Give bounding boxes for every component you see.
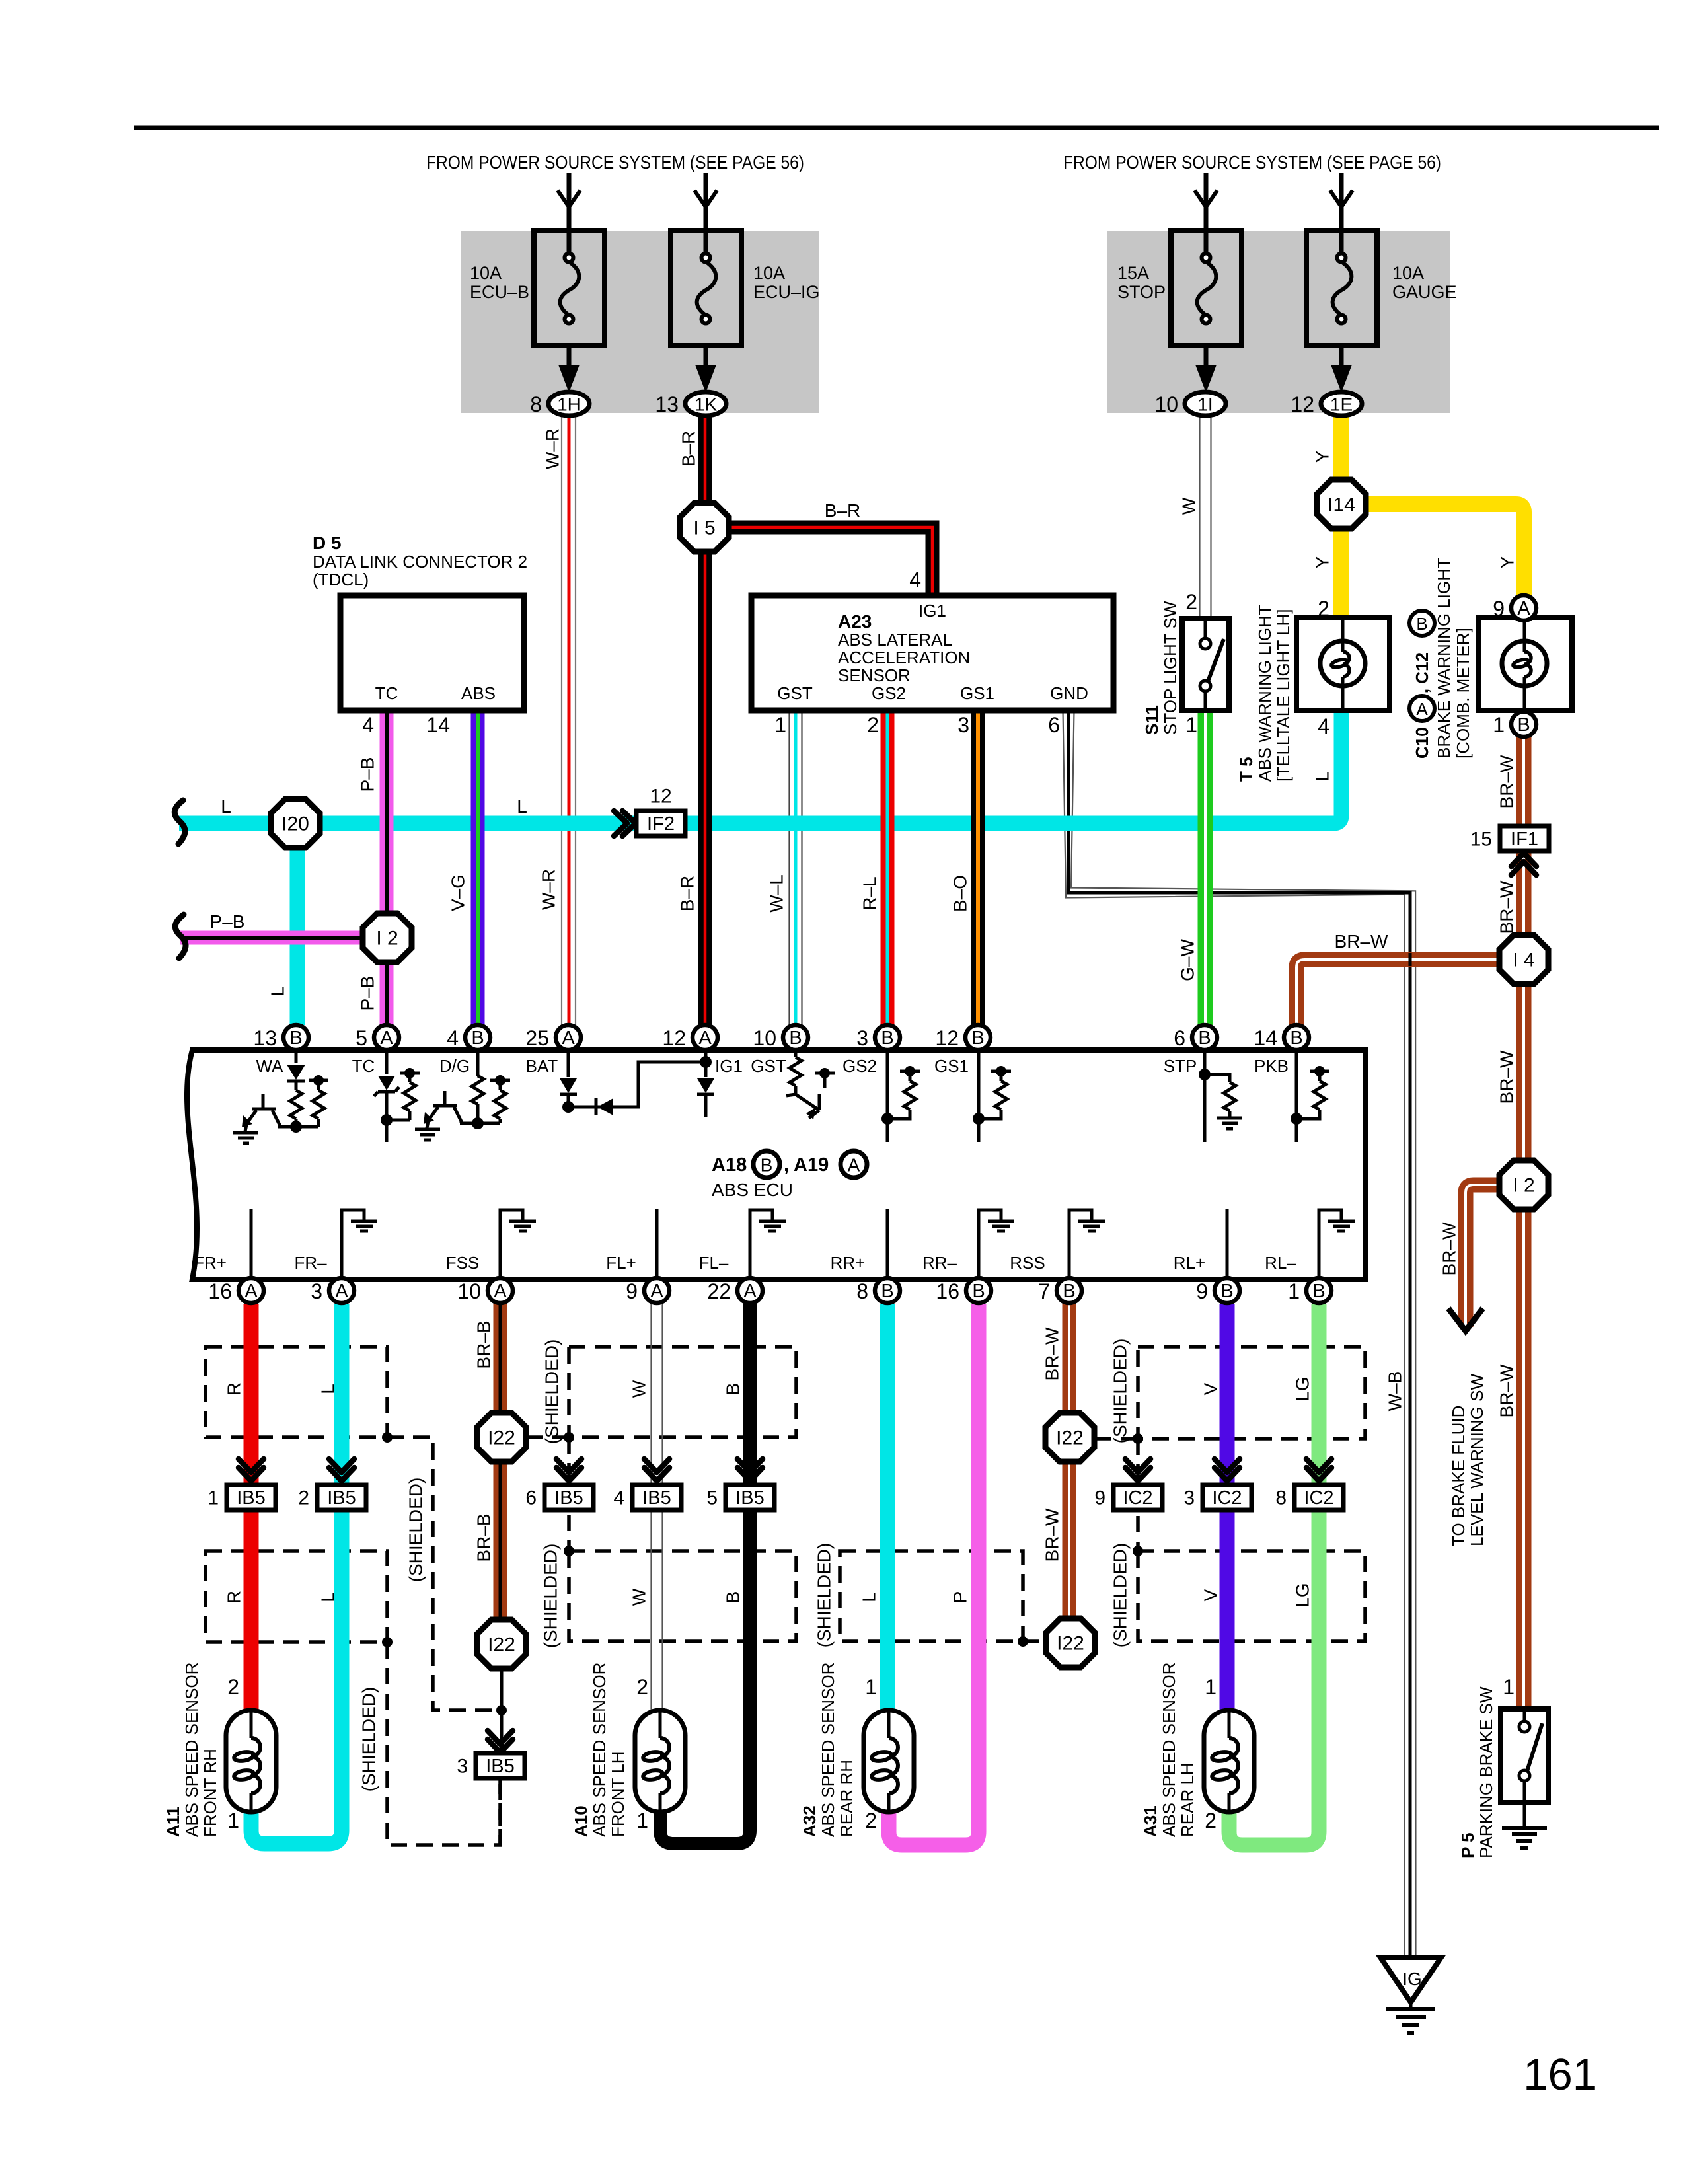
- svg-text:BR–B: BR–B: [474, 1320, 494, 1369]
- ABS ECU A18/A19 box: [187, 1050, 1365, 1279]
- svg-text:BR–W: BR–W: [1042, 1327, 1063, 1380]
- wire G-W (stop light switch to ECU STP): [1198, 710, 1213, 1025]
- svg-text:9: 9: [1094, 1487, 1105, 1509]
- svg-text:1K: 1K: [694, 395, 718, 415]
- svg-text:BR–W: BR–W: [1497, 1050, 1517, 1104]
- wire BR-W (brake warning light 1B to IF1 to I4 to I2 to parking brake switch): [1516, 737, 1532, 1709]
- svg-text:STOP: STOP: [1117, 282, 1166, 302]
- shield box around V/LG wires (lower, RL speed sensor): [1138, 1551, 1365, 1641]
- svg-text:15: 15: [1470, 829, 1492, 850]
- FL- stub with ground: [750, 1210, 772, 1279]
- svg-text:ABS SPEED SENSOR: ABS SPEED SENSOR: [818, 1663, 838, 1837]
- junction block shading (right): [1107, 231, 1450, 413]
- svg-text:FL+: FL+: [606, 1253, 636, 1273]
- shield box around L/P wires (RR speed sensor): [840, 1551, 1023, 1641]
- svg-text:B: B: [972, 1281, 985, 1302]
- connector arrow (double chevron) on L wire: [329, 1459, 354, 1481]
- STP circuit: resistor to ground: [1203, 1053, 1207, 1142]
- svg-text:(SHIELDED): (SHIELDED): [406, 1478, 426, 1583]
- junction node FL shield lower: [564, 1546, 574, 1556]
- svg-text:P–B: P–B: [210, 911, 245, 932]
- BAT circuit: diode down: [567, 1053, 570, 1077]
- svg-text:3: 3: [1183, 1487, 1195, 1509]
- fuse STOP: [1117, 231, 1242, 346]
- svg-text:12: 12: [935, 1026, 959, 1050]
- svg-text:12: 12: [662, 1026, 686, 1050]
- D/G circuit: resistor 1: [476, 1053, 480, 1076]
- RL+ stub: [1226, 1209, 1229, 1279]
- svg-text:V–G: V–G: [448, 874, 468, 911]
- svg-text:IB5: IB5: [237, 1487, 266, 1509]
- FR- stub with ground: [342, 1210, 364, 1279]
- pin 9A (FL+): [626, 1278, 669, 1303]
- svg-text:4: 4: [447, 1026, 459, 1050]
- svg-text:1: 1: [636, 1809, 648, 1832]
- wire LG (ECU RL- down and hook to sensor rear LH pin 2): [1229, 1304, 1319, 1845]
- ground (D/G transistor): [415, 1129, 440, 1140]
- svg-text:GS1: GS1: [960, 683, 994, 703]
- svg-text:ECU–IG: ECU–IG: [753, 282, 820, 302]
- svg-text:GND: GND: [1050, 683, 1088, 703]
- svg-text:B: B: [723, 1591, 743, 1604]
- svg-text:R–L: R–L: [860, 876, 880, 910]
- junction node RL shield upper: [1133, 1433, 1143, 1444]
- wire R (ECU FR+ to speed sensor front RH): [244, 1304, 259, 1710]
- svg-text:L: L: [318, 1384, 338, 1394]
- svg-text:4: 4: [1318, 714, 1329, 738]
- junction node where drain meets I22 line: [496, 1705, 507, 1715]
- connector 1H: [530, 392, 589, 416]
- svg-text:(SHIELDED): (SHIELDED): [1110, 1339, 1131, 1444]
- svg-text:10A: 10A: [470, 263, 502, 283]
- svg-text:GS2: GS2: [872, 683, 906, 703]
- svg-text:14: 14: [426, 713, 450, 737]
- svg-text:1: 1: [1503, 1675, 1515, 1699]
- wire V-G (data link ABS to ECU D/G): [471, 710, 485, 1025]
- connector arrow (double chevron) on LG wire: [1306, 1459, 1331, 1481]
- svg-text:1: 1: [1288, 1279, 1300, 1303]
- svg-text:SENSOR: SENSOR: [838, 665, 911, 685]
- connector arrow (double chevron) on FL shield drain: [556, 1459, 581, 1481]
- wire break symbol at L bus left end: [174, 800, 185, 844]
- svg-text:LG: LG: [1292, 1583, 1313, 1607]
- svg-text:9: 9: [1493, 597, 1505, 621]
- svg-text:[TELLTALE LIGHT LH]: [TELLTALE LIGHT LH]: [1273, 609, 1293, 782]
- ground (FR-): [351, 1221, 377, 1231]
- parking brake switch P5: [1501, 1709, 1548, 1803]
- stop light switch S11: [1182, 619, 1229, 710]
- pin 22A (FL-): [707, 1278, 763, 1303]
- pin 6B (STP): [1174, 1025, 1217, 1050]
- svg-text:1E: 1E: [1330, 395, 1353, 415]
- svg-text:1I: 1I: [1197, 395, 1213, 415]
- wire from fuse GAUGE to connector: [1339, 346, 1344, 370]
- svg-text:5: 5: [356, 1026, 367, 1050]
- svg-text:B: B: [1517, 714, 1530, 735]
- WA circuit: resistor 1: [290, 1090, 302, 1127]
- svg-text:FROM POWER SOURCE SYSTEM (SEE: FROM POWER SOURCE SYSTEM (SEE PAGE 56): [426, 152, 804, 172]
- pin 12A (IG1): [662, 1025, 718, 1050]
- svg-text:ABS SPEED SENSOR: ABS SPEED SENSOR: [1159, 1663, 1179, 1837]
- svg-text:B–O: B–O: [950, 875, 971, 912]
- svg-text:2: 2: [227, 1675, 239, 1699]
- svg-text:22: 22: [707, 1279, 731, 1303]
- pin 4B (D/G): [447, 1025, 490, 1050]
- junction connector I22 (RSS upper): [1045, 1413, 1094, 1462]
- connector arrow (double chevron, right) on L bus at IF2: [614, 811, 636, 836]
- svg-text:BR–W: BR–W: [1497, 880, 1517, 934]
- wire BR-W (ECU RSS through I22 pair): [1063, 1303, 1076, 1618]
- svg-text:IF2: IF2: [647, 813, 675, 835]
- connector arrow (double chevron, up) on BR-W at IF1: [1511, 853, 1536, 875]
- svg-text:4: 4: [362, 713, 374, 737]
- arrowhead (from power source): [1195, 190, 1217, 207]
- svg-text:8: 8: [1275, 1487, 1287, 1509]
- wire L (I20 down to ECU WA pin 13): [290, 823, 305, 1025]
- svg-text:R: R: [224, 1591, 244, 1604]
- svg-text:13: 13: [655, 393, 679, 416]
- svg-text:D 5: D 5: [313, 533, 342, 553]
- solid arrowhead: [558, 365, 580, 393]
- svg-text:[COMB. METER]: [COMB. METER]: [1453, 628, 1473, 759]
- svg-text:IG1: IG1: [715, 1056, 743, 1076]
- svg-text:GS1: GS1: [934, 1056, 969, 1076]
- svg-text:, A19: , A19: [784, 1154, 829, 1176]
- junction block shading (left): [461, 231, 819, 413]
- svg-text:L: L: [1312, 771, 1333, 782]
- dashed line IB5-3 down to lower FR drain: [498, 1778, 502, 1845]
- pin 5A (TC): [356, 1025, 399, 1050]
- WA circuit: transistor to ground: [248, 1094, 280, 1127]
- connector IF1: [1470, 826, 1549, 851]
- solid arrowhead: [695, 365, 716, 393]
- PKB circuit: [1295, 1053, 1298, 1142]
- svg-text:IG: IG: [1402, 1969, 1422, 1989]
- svg-text:B–R: B–R: [677, 876, 698, 911]
- ground (RR-): [988, 1221, 1014, 1231]
- svg-text:1: 1: [865, 1675, 877, 1699]
- arrowhead (from power source): [694, 190, 717, 207]
- svg-text:ABS SPEED SENSOR: ABS SPEED SENSOR: [589, 1663, 609, 1837]
- svg-text:FROM POWER SOURCE SYSTEM (SEE: FROM POWER SOURCE SYSTEM (SEE PAGE 56): [1063, 152, 1441, 172]
- connector IC2 pin 3: [1183, 1485, 1252, 1510]
- svg-text:1: 1: [227, 1809, 239, 1832]
- svg-text:R: R: [224, 1382, 244, 1396]
- junction connector I22 (FSS upper): [477, 1413, 526, 1462]
- pin 14B (PKB): [1254, 1025, 1309, 1050]
- svg-text:P: P: [950, 1591, 971, 1604]
- svg-text:B: B: [881, 1028, 893, 1049]
- svg-text:L: L: [859, 1592, 880, 1602]
- svg-text:RR+: RR+: [831, 1253, 866, 1273]
- svg-text:I 2: I 2: [1513, 1175, 1534, 1197]
- svg-text:IB5: IB5: [554, 1487, 583, 1509]
- solid line I22 to chevron IB5-3: [500, 1669, 504, 1752]
- svg-text:BAT: BAT: [526, 1056, 558, 1076]
- svg-text:BR–W: BR–W: [1335, 931, 1388, 952]
- svg-text:1: 1: [774, 713, 786, 737]
- wire BR-B (ECU FSS through I22 pair): [494, 1303, 507, 1620]
- TC circuit: junction: [387, 1119, 410, 1122]
- speed sensor A10 (front LH): [635, 1710, 685, 1812]
- svg-text:IB5: IB5: [735, 1487, 765, 1509]
- wire Y (gauge fuse to I14): [1333, 416, 1349, 480]
- svg-text:BR–W: BR–W: [1042, 1508, 1063, 1562]
- svg-text:A31: A31: [1141, 1805, 1160, 1837]
- svg-text:161: 161: [1523, 2050, 1597, 2099]
- svg-text:Y: Y: [1497, 556, 1518, 568]
- svg-text:6: 6: [525, 1487, 537, 1509]
- svg-text:P–B: P–B: [357, 976, 378, 1011]
- FR+ stub: [250, 1209, 253, 1279]
- svg-text:B: B: [1198, 1028, 1211, 1049]
- svg-text:IC2: IC2: [1212, 1487, 1242, 1509]
- connector IB5 pin 4: [613, 1485, 681, 1510]
- wire W-L (acceleration sensor GST to ECU) outlines: [790, 710, 802, 1025]
- svg-text:13: 13: [253, 1026, 277, 1050]
- svg-text:4: 4: [613, 1487, 624, 1509]
- svg-text:W: W: [629, 1380, 650, 1398]
- svg-text:GS2: GS2: [842, 1056, 877, 1076]
- svg-text:GST: GST: [777, 683, 813, 703]
- pin 13B (WA): [253, 1025, 309, 1050]
- svg-text:ECU–B: ECU–B: [470, 282, 529, 302]
- shield drain wire from upper FR box to I22 line: [387, 1437, 502, 1710]
- svg-text:FRONT RH: FRONT RH: [200, 1749, 220, 1837]
- pin 8B (RR+): [856, 1278, 900, 1303]
- junction node FL shield upper: [564, 1432, 574, 1443]
- svg-text:B: B: [761, 1155, 773, 1176]
- svg-text:A: A: [562, 1028, 575, 1049]
- solid arrowhead: [1331, 365, 1352, 393]
- svg-text:B: B: [471, 1028, 484, 1049]
- wire W-R (ECU-B fuse to ECU BAT) outlines: [562, 416, 576, 1025]
- svg-text:DATA LINK CONNECTOR 2: DATA LINK CONNECTOR 2: [313, 552, 527, 572]
- GS2 circuit: [886, 1053, 889, 1142]
- svg-text:3: 3: [457, 1756, 468, 1778]
- svg-text:8: 8: [856, 1279, 868, 1303]
- svg-text:A: A: [380, 1028, 393, 1049]
- svg-text:GST: GST: [751, 1056, 786, 1076]
- svg-text:RSS: RSS: [1010, 1253, 1045, 1273]
- pin 10A (FSS): [457, 1278, 513, 1303]
- shield box around R/L wires (upper, FR speed sensor): [206, 1347, 387, 1437]
- ground (RL-): [1328, 1221, 1355, 1231]
- fuse ECU-B: [470, 231, 605, 346]
- svg-text:12: 12: [650, 786, 671, 808]
- wire W (stop fuse to stop light switch) (white, outlines): [1210, 416, 1211, 619]
- svg-text:A: A: [335, 1281, 348, 1302]
- dashed link I22 to RL shield box corner: [1095, 1437, 1138, 1441]
- connector IB5 pin 2: [298, 1485, 366, 1510]
- connector IC2 pin 9: [1094, 1485, 1162, 1510]
- svg-text:FSS: FSS: [446, 1253, 480, 1273]
- svg-text:10A: 10A: [1392, 263, 1424, 283]
- svg-text:14: 14: [1254, 1026, 1277, 1050]
- svg-text:V: V: [1201, 1589, 1221, 1601]
- svg-text:BRAKE WARNING LIGHT: BRAKE WARNING LIGHT: [1434, 558, 1454, 759]
- FSS stub with ground: [500, 1210, 523, 1279]
- pin 12B (GS1): [935, 1025, 991, 1050]
- svg-text:1H: 1H: [557, 395, 581, 415]
- pin 7B (RSS): [1038, 1278, 1082, 1303]
- shield drain between FL boxes through IB5 pin 6: [567, 1437, 571, 1551]
- svg-text:ABS LATERAL: ABS LATERAL: [838, 630, 952, 650]
- connector IB5 pin 5: [706, 1485, 774, 1510]
- fuse ECU-IG: [671, 231, 785, 346]
- svg-text:REAR RH: REAR RH: [837, 1760, 856, 1837]
- svg-text:25: 25: [525, 1026, 549, 1050]
- svg-text:TC: TC: [352, 1056, 375, 1076]
- junction connector I2 (right): [1499, 1160, 1548, 1209]
- svg-text:10: 10: [457, 1279, 481, 1303]
- connector 1I: [1154, 392, 1226, 416]
- junction connector I5: [680, 503, 729, 552]
- svg-text:I 2: I 2: [376, 928, 398, 950]
- connector arrow (double chevron) on RL shield drain: [1125, 1459, 1150, 1481]
- svg-text:2: 2: [1205, 1809, 1217, 1832]
- wire B (ECU FL- down and hook to sensor front LH pin 1): [660, 1304, 750, 1844]
- junction node on shield drain: [382, 1432, 393, 1443]
- connector 1K: [655, 392, 726, 416]
- speed sensor A31 (rear LH): [1204, 1710, 1254, 1812]
- svg-text:B: B: [723, 1383, 743, 1396]
- shield box around V/LG wires (upper, RL speed sensor): [1138, 1347, 1365, 1439]
- svg-text:10A: 10A: [753, 263, 785, 283]
- svg-text:I 4: I 4: [1513, 950, 1534, 971]
- ground (FL-): [759, 1221, 786, 1231]
- svg-text:FL–: FL–: [699, 1253, 729, 1273]
- svg-text:FR–: FR–: [294, 1253, 327, 1273]
- wire L (main cyan bus from I20 to ABS warning light): [179, 710, 1341, 823]
- junction connector I20: [271, 799, 320, 848]
- svg-text:3: 3: [311, 1279, 322, 1303]
- svg-text:(SHIELDED): (SHIELDED): [359, 1687, 379, 1792]
- svg-text:B: B: [881, 1281, 893, 1302]
- shield box around W/B wires (lower, FL speed sensor): [569, 1551, 796, 1641]
- junction connector I22 (RSS lower): [1046, 1618, 1095, 1667]
- wire feed into fuse ECU-IG: [704, 173, 708, 254]
- svg-text:P 5: P 5: [1458, 1832, 1478, 1858]
- pin 16A (FR+): [208, 1278, 264, 1303]
- svg-text:P–B: P–B: [357, 757, 378, 792]
- svg-text:W: W: [629, 1588, 650, 1606]
- shield drain between RL boxes through IC2 pin 9: [1136, 1439, 1140, 1551]
- pin 16B (RR-): [936, 1278, 991, 1303]
- BAT to IG1 link with diode: [568, 1062, 706, 1107]
- TC circuit: zener diode: [385, 1053, 389, 1074]
- connector arrow (double chevron) on B wire: [737, 1459, 763, 1481]
- svg-text:LEVEL WARNING SW: LEVEL WARNING SW: [1467, 1374, 1487, 1546]
- ground (FSS): [509, 1221, 536, 1231]
- svg-text:W–B: W–B: [1385, 1371, 1405, 1412]
- svg-text:I22: I22: [488, 1634, 515, 1656]
- svg-text:6: 6: [1048, 713, 1060, 737]
- svg-text:G–W: G–W: [1178, 939, 1198, 981]
- svg-text:S11: S11: [1142, 705, 1162, 735]
- svg-text:3: 3: [957, 713, 969, 737]
- svg-text:5: 5: [706, 1487, 718, 1509]
- pin 3A (FR-): [311, 1278, 354, 1303]
- wire feed into fuse ECU-B: [567, 173, 572, 254]
- wire feed into fuse GAUGE: [1339, 173, 1344, 254]
- svg-text:GAUGE: GAUGE: [1392, 282, 1457, 302]
- wire from fuse ECU-IG to connector: [704, 346, 708, 370]
- D/G circuit: junction bar: [460, 1122, 500, 1125]
- svg-text:ABS ECU: ABS ECU: [712, 1180, 793, 1200]
- svg-text:I 5: I 5: [693, 517, 715, 539]
- acceleration sensor A23 box: [751, 595, 1113, 710]
- pin 9B (RL+): [1196, 1278, 1240, 1303]
- wire L (ECU RR+ to speed sensor rear RH): [880, 1304, 895, 1710]
- black tracer of W-B visible in BR-W gap at crossing: [1409, 953, 1412, 966]
- RR- stub with ground: [979, 1210, 1001, 1279]
- shield drain wire from lower FR box to IB5 pin 3: [387, 1642, 500, 1845]
- data link connector D5 box: [340, 595, 524, 710]
- svg-text:WA: WA: [256, 1056, 284, 1076]
- arrowhead (from power source): [558, 190, 580, 207]
- svg-text:10: 10: [753, 1026, 776, 1050]
- svg-text:2: 2: [865, 1809, 877, 1832]
- svg-text:A: A: [698, 1028, 712, 1049]
- svg-text:4: 4: [909, 568, 921, 591]
- svg-text:IF1: IF1: [1511, 829, 1538, 850]
- svg-text:I20: I20: [281, 813, 309, 835]
- wire BR-W (I2 branch to brake fluid level warning switch): [1466, 1185, 1499, 1327]
- svg-text:16: 16: [936, 1279, 959, 1303]
- ground (parking brake switch): [1523, 1803, 1526, 1828]
- wire B-R (I5 to acceleration sensor IG1 pin 4): [728, 527, 932, 595]
- component label C10/C12 BRAKE WARNING LIGHT: [1409, 558, 1473, 759]
- svg-text:I14: I14: [1328, 494, 1355, 516]
- pin 10B (GST): [753, 1025, 808, 1050]
- svg-text:B–R: B–R: [825, 500, 860, 521]
- svg-text:(SHIELDED): (SHIELDED): [814, 1543, 835, 1648]
- svg-text:BR–B: BR–B: [474, 1513, 494, 1562]
- svg-text:IB5: IB5: [642, 1487, 671, 1509]
- wire W-B black tracer: [1068, 710, 1410, 1957]
- wire Y (I14 to brake warning light pin 9A): [1366, 504, 1524, 595]
- svg-text:T 5: T 5: [1236, 757, 1256, 782]
- svg-text:A10: A10: [571, 1805, 591, 1837]
- wire B-R (ECU-IG fuse through I5 to ECU IG1): [698, 416, 712, 1025]
- svg-text:B: B: [1312, 1281, 1325, 1302]
- svg-text:9: 9: [1196, 1279, 1208, 1303]
- junction connector I4: [1499, 935, 1548, 984]
- speed sensor A32 (rear RH): [864, 1710, 914, 1812]
- svg-text:A: A: [1416, 699, 1428, 719]
- svg-text:A11: A11: [163, 1807, 183, 1837]
- svg-text:LG: LG: [1292, 1376, 1313, 1401]
- svg-text:15A: 15A: [1117, 263, 1149, 283]
- svg-text:(SHIELDED): (SHIELDED): [1110, 1543, 1131, 1648]
- svg-text:2: 2: [1185, 590, 1197, 614]
- svg-text:ACCELERATION: ACCELERATION: [838, 648, 970, 667]
- svg-text:B: B: [971, 1028, 984, 1049]
- svg-text:10: 10: [1154, 393, 1178, 416]
- wire R-L (acceleration sensor GS2 to ECU): [881, 710, 895, 1025]
- svg-text:B: B: [1063, 1281, 1075, 1302]
- connector IB5 pin 1: [207, 1485, 276, 1510]
- wire BR-W (I4 to ECU PKB pin 14): [1296, 960, 1499, 1025]
- wire from fuse ECU-B to connector: [567, 346, 572, 370]
- svg-text:Y: Y: [1312, 556, 1333, 568]
- RSS stub with ground: [1069, 1210, 1092, 1279]
- svg-text:1: 1: [1185, 713, 1197, 737]
- svg-text:1: 1: [207, 1487, 219, 1509]
- wire W-B (acceleration sensor GND to IG ground) (white, outlines): [1071, 710, 1416, 1957]
- svg-text:FRONT LH: FRONT LH: [608, 1751, 628, 1837]
